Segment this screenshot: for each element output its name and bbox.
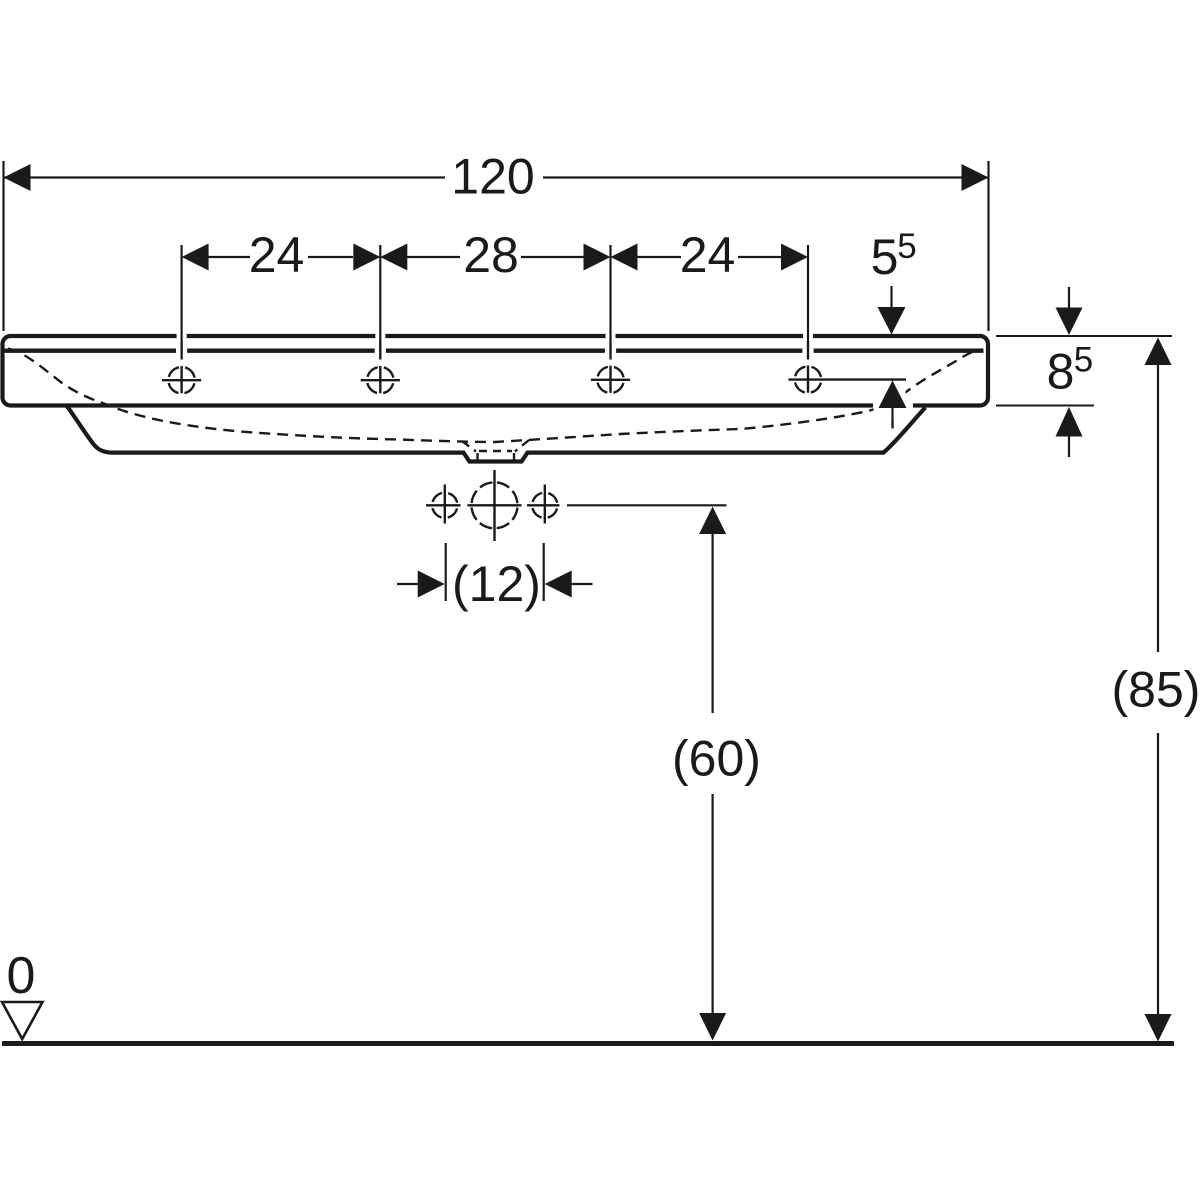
dimension line 28 <box>407 256 460 258</box>
washbasin body lower outline <box>67 406 926 462</box>
dimension (12) extension lines <box>445 543 447 601</box>
extension line hole 3 <box>609 245 611 360</box>
datum triangle <box>2 1002 43 1039</box>
svg-text:5: 5 <box>871 229 899 285</box>
dimension (60) <box>699 507 726 535</box>
mounting hole 1 <box>162 366 201 393</box>
dimension (12) right arrow <box>545 571 572 598</box>
arrowhead 24R left <box>611 244 638 271</box>
svg-text:28: 28 <box>463 227 519 283</box>
faucet hole symbol right <box>527 485 560 524</box>
dimension line 24 left <box>208 256 250 258</box>
dimension 8.5 up arrow <box>1056 407 1083 437</box>
arrowhead 24L left <box>182 244 209 271</box>
washbasin inner rim line <box>5 349 984 353</box>
svg-text:24: 24 <box>249 227 305 283</box>
svg-text:5: 5 <box>897 227 916 266</box>
drain funnel dashed <box>462 441 476 452</box>
mounting hole 3 <box>591 366 630 393</box>
svg-text:(85): (85) <box>1112 662 1200 718</box>
arrowhead 24L right <box>353 244 380 271</box>
right reference line bottom (slab bottom level) <box>996 405 1094 407</box>
arrowhead 28 right <box>584 244 611 271</box>
drain recess ticks <box>476 453 478 461</box>
svg-text:(12): (12) <box>452 556 541 612</box>
dimension line 120 <box>4 176 446 178</box>
floor line <box>2 1041 1174 1046</box>
washbasin slab outline <box>3 336 989 406</box>
arrowhead 28 left <box>380 244 407 271</box>
extension line hole 2 <box>379 245 381 360</box>
re-draw extension line stubs through slab top <box>182 331 808 360</box>
arrowhead 120 left <box>4 164 31 191</box>
dimension 120 extension line left <box>2 161 4 331</box>
svg-text:24: 24 <box>680 227 736 283</box>
extension line hole 1 <box>181 245 183 360</box>
dimension 5.5 up arrow <box>879 381 907 409</box>
arrowhead 120 right <box>962 164 989 191</box>
faucet reference line to (60) <box>567 504 727 506</box>
dimension 5.5 down arrow <box>890 286 892 308</box>
faucet hole symbol left <box>426 485 461 524</box>
extension line hole 4 <box>807 245 809 360</box>
mounting hole 2 <box>361 366 400 393</box>
svg-text:5: 5 <box>1074 341 1093 380</box>
svg-text:0: 0 <box>7 947 36 1005</box>
dimension 5.5 up arrow redraw <box>879 381 907 409</box>
dimension 8.5 down arrow <box>1068 287 1070 308</box>
arrowhead 24R right <box>781 244 808 271</box>
dimension (12) left arrow <box>397 583 418 585</box>
svg-text:8: 8 <box>1047 343 1075 399</box>
dimension 120 extension line right <box>987 161 989 331</box>
dimension line 24 right <box>637 256 681 258</box>
faucet hole symbol center <box>468 470 522 541</box>
white gaps in slab top line at extension lines <box>177 331 913 412</box>
white gap for 5.5 arrow over dashed curve <box>874 384 906 420</box>
dimension (85) <box>1145 338 1172 366</box>
mounting hole 4 <box>788 365 906 392</box>
svg-text:(60): (60) <box>672 731 761 787</box>
right reference line top (slab top level) <box>996 335 1172 337</box>
svg-text:120: 120 <box>451 149 534 205</box>
interior dashed basin curve <box>8 349 982 443</box>
